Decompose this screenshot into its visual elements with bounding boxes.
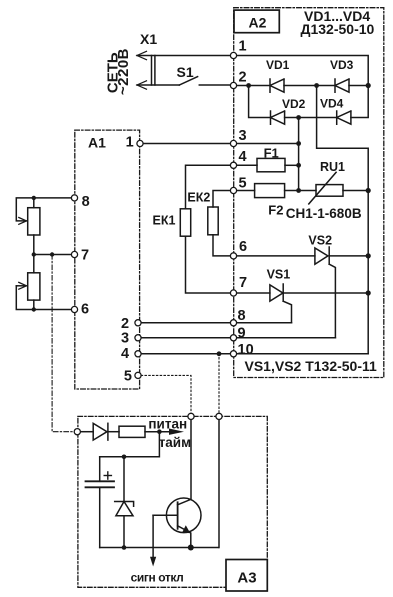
svg-text:2: 2 [239, 70, 247, 86]
svg-text:6: 6 [81, 302, 89, 318]
svg-text:X1: X1 [140, 31, 157, 47]
svg-text:VD2: VD2 [282, 97, 306, 111]
svg-text:3: 3 [121, 331, 129, 347]
svg-text:3: 3 [239, 128, 247, 144]
svg-text:6: 6 [239, 239, 247, 255]
svg-text:А1: А1 [88, 134, 106, 150]
svg-text:7: 7 [81, 248, 89, 264]
svg-text:СН1-1-680В: СН1-1-680В [286, 206, 362, 221]
svg-text:VS1: VS1 [267, 267, 291, 281]
svg-text:10: 10 [238, 342, 254, 358]
svg-text:4: 4 [239, 149, 247, 165]
svg-text:8: 8 [82, 194, 90, 210]
svg-text:Д132-50-10: Д132-50-10 [301, 21, 375, 37]
svg-text:5: 5 [124, 368, 132, 384]
svg-text:VD3: VD3 [330, 58, 354, 72]
svg-text:А2: А2 [249, 14, 267, 30]
svg-text:VS1,VS2 Т132-50-11: VS1,VS2 Т132-50-11 [245, 358, 378, 374]
svg-text:тайм: тайм [159, 435, 191, 450]
svg-text:~220В: ~220В [115, 48, 132, 95]
svg-text:8: 8 [238, 308, 246, 324]
svg-text:А3: А3 [237, 569, 256, 586]
svg-text:ЕК1: ЕК1 [153, 214, 176, 228]
svg-text:4: 4 [121, 346, 129, 362]
svg-text:VS2: VS2 [308, 233, 332, 247]
svg-text:F1: F1 [264, 146, 279, 161]
svg-text:1: 1 [239, 39, 247, 55]
svg-text:S1: S1 [177, 64, 194, 80]
svg-text:F2: F2 [268, 202, 283, 217]
svg-text:VD4: VD4 [320, 97, 344, 111]
svg-text:5: 5 [239, 176, 247, 192]
svg-text:1: 1 [126, 135, 134, 151]
svg-text:питан: питан [148, 417, 187, 432]
svg-text:7: 7 [239, 275, 247, 291]
svg-text:VD1: VD1 [266, 58, 290, 72]
svg-text:RU1: RU1 [320, 160, 345, 174]
svg-text:9: 9 [238, 325, 246, 341]
svg-text:сигн откл: сигн откл [131, 571, 184, 585]
svg-text:ЕК2: ЕК2 [187, 190, 210, 204]
